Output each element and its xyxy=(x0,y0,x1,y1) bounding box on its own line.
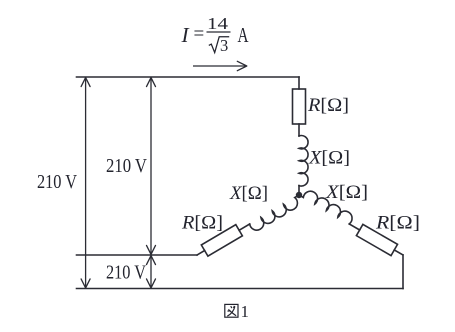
wire inductor to resistor (left branch) xyxy=(239,224,250,230)
svg-text:R[Ω]: R[Ω] xyxy=(375,214,420,234)
svg-text:210 V: 210 V xyxy=(37,171,77,193)
voltage arrow outer head down xyxy=(81,279,90,288)
svg-text:X[Ω]: X[Ω] xyxy=(229,184,268,204)
wire inductor to node (vertical branch) xyxy=(298,186,300,195)
voltage arrow small head up xyxy=(147,256,156,265)
svg-text:I: I xyxy=(181,23,190,47)
voltage arrow inner head up xyxy=(147,78,156,87)
inductor X (left branch) xyxy=(194,189,304,263)
svg-text:210 V: 210 V xyxy=(106,262,146,284)
voltage arrow small 210V shaft xyxy=(150,256,152,288)
wire top-right corner down to resistor xyxy=(298,77,300,89)
wire resistor to line end (left branch) xyxy=(197,251,205,255)
inductor X (right branch) xyxy=(296,186,408,260)
resistor R (vertical branch) xyxy=(293,89,306,124)
formula I = 14/sqrt(3) A xyxy=(181,14,250,55)
wire inductor to resistor (right branch) xyxy=(349,224,359,230)
voltage arrow small head down xyxy=(147,279,156,288)
svg-text:=: = xyxy=(194,24,205,45)
voltage arrow outer head up xyxy=(81,78,90,87)
svg-text:1: 1 xyxy=(241,302,250,321)
svg-text:R[Ω]: R[Ω] xyxy=(307,96,349,116)
svg-text:3: 3 xyxy=(220,36,228,55)
inductor X (vertical branch) xyxy=(299,136,308,187)
svg-text:X[Ω]: X[Ω] xyxy=(325,183,368,203)
wire middle horizontal line xyxy=(77,254,198,256)
wire resistor to inductor (vertical branch) xyxy=(298,124,300,136)
resistor R (right branch) xyxy=(356,224,397,255)
svg-text:210 V: 210 V xyxy=(106,155,147,177)
wire bottom horizontal line xyxy=(77,288,404,290)
wire top horizontal line xyxy=(77,76,300,78)
wire right vertical down xyxy=(402,255,404,289)
resistor R (left branch) xyxy=(201,225,242,256)
node (neutral point) xyxy=(296,192,302,198)
voltage arrow outer 210V shaft xyxy=(85,78,87,288)
svg-text:X[Ω]: X[Ω] xyxy=(308,149,350,169)
svg-text:R[Ω]: R[Ω] xyxy=(181,214,223,234)
voltage arrow inner 210V shaft xyxy=(150,78,152,254)
current arrow I xyxy=(193,65,247,67)
caption zu (figure) glyph xyxy=(225,304,238,317)
voltage arrow inner head down xyxy=(147,245,156,254)
svg-text:A: A xyxy=(238,23,250,47)
svg-text:14: 14 xyxy=(207,14,228,33)
wire resistor to corner (right branch) xyxy=(394,250,403,255)
